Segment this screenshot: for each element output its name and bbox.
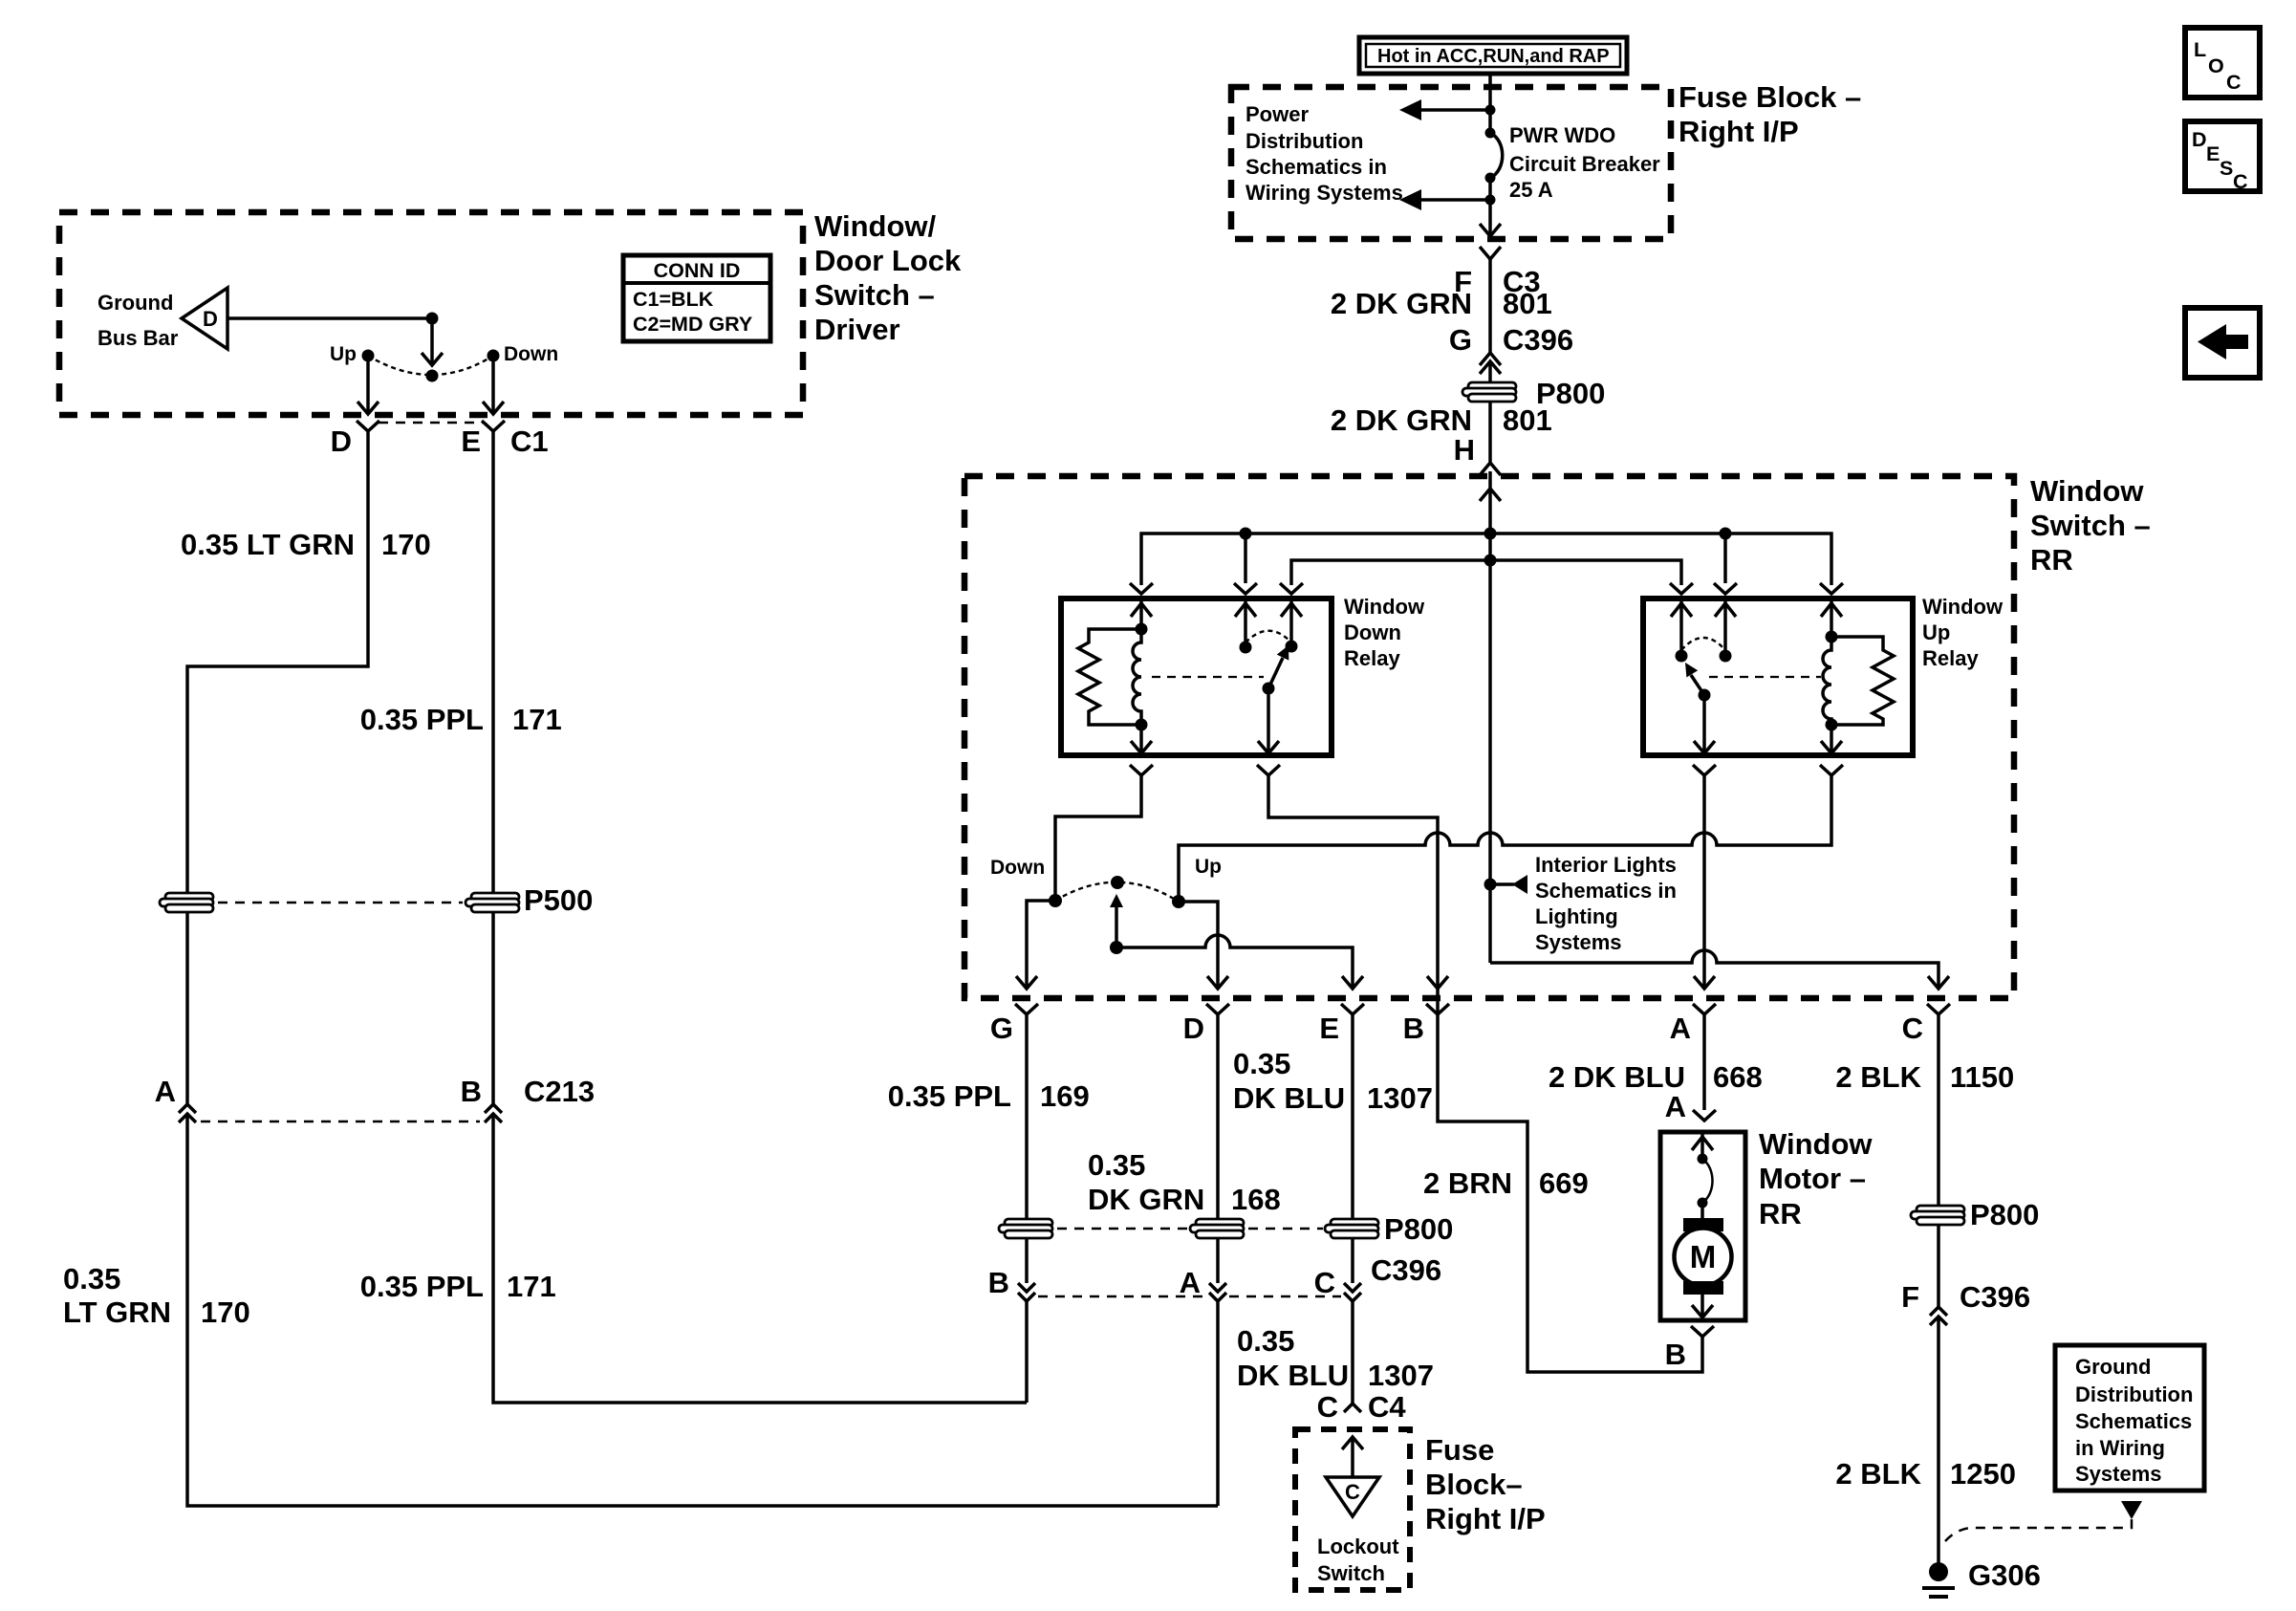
svg-text:G306: G306: [1968, 1558, 2041, 1592]
label Window Motor - RR: [1759, 1127, 1873, 1230]
svg-text:Ground: Ground: [97, 291, 173, 315]
svg-text:Up: Up: [1195, 856, 1222, 878]
svg-text:1307: 1307: [1368, 1359, 1434, 1392]
svg-text:C396: C396: [1371, 1253, 1441, 1287]
chevron motor pin B: [1691, 1326, 1714, 1337]
svg-text:Down: Down: [1344, 620, 1401, 644]
svg-text:G: G: [1449, 323, 1472, 357]
svg-text:0.35: 0.35: [1088, 1148, 1145, 1182]
wire label 0.35 PPL 169: [888, 1079, 1090, 1113]
wire label 2 DK GRN 801 (lower): [1331, 403, 1552, 437]
svg-text:2 DK GRN: 2 DK GRN: [1331, 287, 1472, 320]
svg-text:O: O: [2208, 54, 2224, 77]
svg-text:Switch –: Switch –: [2030, 509, 2151, 542]
motor M circle: [1675, 1229, 1732, 1286]
svg-text:Down: Down: [990, 857, 1045, 879]
center wire bottom run to pin C (hops A wire): [1490, 950, 1939, 989]
wire 170 to C213: [185, 911, 189, 1105]
svg-text:L: L: [2194, 38, 2206, 61]
grommet P800 on wire 1307: [1325, 1219, 1378, 1238]
down relay coil L: [1133, 629, 1141, 725]
dashed reference line to G306: [1945, 1519, 2132, 1541]
wire 2 BRN 669 pin B to motor B: [1438, 989, 1702, 1372]
svg-text:D: D: [203, 307, 218, 331]
svg-text:A: A: [155, 1075, 176, 1108]
up relay blade pivot: [1699, 689, 1711, 702]
svg-text:Relay: Relay: [1344, 646, 1400, 670]
chevron pin E driver: [482, 421, 505, 431]
svg-text:S: S: [2220, 157, 2233, 180]
svg-text:Schematics in: Schematics in: [1245, 155, 1387, 179]
svg-text:2 DK BLU: 2 DK BLU: [1549, 1060, 1685, 1094]
wire up relay switch out to pin A: [1702, 775, 1706, 989]
up relay NC contact dot: [1676, 650, 1688, 663]
motor thermal link curve: [1698, 1154, 1713, 1219]
down relay blade pivot: [1263, 683, 1275, 695]
svg-text:Circuit Breaker: Circuit Breaker: [1509, 152, 1660, 176]
chevrons above Window Up Relay: [1670, 583, 1843, 594]
svg-text:Block–: Block–: [1425, 1468, 1523, 1501]
power bus line 2: [1291, 560, 1681, 585]
connector C396 arrows pin A: [1209, 1283, 1226, 1301]
svg-text:P500: P500: [524, 883, 593, 917]
wire breaker output with arrow: [1480, 178, 1501, 236]
chevrons above Window Down Relay: [1130, 583, 1303, 594]
svg-text:A: A: [1180, 1266, 1201, 1299]
svg-text:Lockout: Lockout: [1317, 1535, 1399, 1558]
wire pin C down to P800: [1937, 1014, 1940, 1207]
label Power Distribution Schematics in Wiring Systems: [1245, 102, 1403, 205]
chevron pin D driver: [357, 421, 379, 431]
label Fuse Block- Right I/P (lockout): [1425, 1433, 1546, 1535]
chevron below down relay coil: [1130, 765, 1153, 775]
up relay coil bottom node: [1826, 719, 1838, 731]
grommet P800 right column: [1911, 1198, 2039, 1231]
svg-text:Switch –: Switch –: [814, 278, 935, 312]
svg-text:0.35 PPL: 0.35 PPL: [360, 1270, 484, 1303]
wire label 2 BLK 1250: [1835, 1457, 2016, 1491]
up relay switch contact wire with arrow: [1715, 599, 1736, 656]
wire Up contact to pin D with arrow: [357, 356, 379, 414]
up relay coil output arrow: [1821, 725, 1842, 753]
wire pin D down to P800: [1216, 1014, 1220, 1220]
svg-text:0.35: 0.35: [1233, 1047, 1290, 1080]
Window Up Relay box: [1643, 599, 1913, 755]
arrow pin G at box edge: [1016, 976, 1037, 989]
svg-text:Window: Window: [1922, 595, 2004, 619]
svg-text:Schematics in: Schematics in: [1535, 879, 1677, 903]
node bus1-relay contact: [1240, 528, 1252, 540]
lockout switch arrow up: [1342, 1437, 1363, 1477]
svg-text:669: 669: [1539, 1166, 1589, 1200]
up relay dashed arc: [1681, 638, 1725, 650]
ground bus bar triangle D: [182, 288, 227, 349]
svg-text:1250: 1250: [1950, 1457, 2016, 1491]
svg-text:C4: C4: [1368, 1390, 1406, 1424]
svg-text:0.35: 0.35: [63, 1262, 120, 1295]
down relay coupling dashed line: [1152, 676, 1264, 678]
svg-text:D: D: [1183, 1012, 1204, 1045]
interior lights tap node: [1484, 879, 1497, 891]
connector C1 dashed link: [379, 422, 483, 425]
wire label 0.35 PPL 171: [360, 703, 562, 736]
Ground Distribution Schematics in Wiring Systems box: [2055, 1345, 2204, 1491]
down relay coil top node: [1136, 623, 1148, 636]
svg-text:668: 668: [1713, 1060, 1763, 1094]
master switch Down contact: [1049, 894, 1062, 907]
wire label 0.35 DK BLU 1307 (upper): [1233, 1047, 1433, 1115]
left-arrow navigation box: [2185, 308, 2260, 378]
chevron pin B: [1426, 1004, 1449, 1014]
svg-text:C1: C1: [510, 425, 549, 458]
svg-text:P800: P800: [1384, 1212, 1453, 1246]
circuit breaker PWR WDO 25 A: [1485, 105, 1661, 206]
wire label 0.35 LT GRN 170: [181, 528, 431, 561]
lockout switch triangle C: [1326, 1477, 1379, 1516]
wire down relay switch out to pin B: [1268, 775, 1438, 989]
svg-text:171: 171: [512, 703, 562, 736]
pin G / C396 labels: [1449, 323, 1573, 357]
down relay resistor R: [1078, 629, 1141, 725]
svg-text:RR: RR: [1759, 1197, 1802, 1230]
wire label 2 BRN 669: [1423, 1166, 1589, 1200]
up relay switch output arrow: [1694, 695, 1715, 753]
arrow pin B at box edge: [1427, 976, 1448, 989]
wire label 0.35 PPL 171 (lower): [360, 1270, 556, 1303]
down relay blade with arrowhead: [1268, 645, 1289, 688]
wire pin A to motor: [1702, 1014, 1706, 1110]
label Ground Bus Bar: [97, 291, 179, 350]
svg-text:Window: Window: [2030, 474, 2144, 508]
arrow down to switch common: [422, 318, 443, 365]
svg-text:A: A: [1665, 1090, 1686, 1123]
CONN ID table: [623, 255, 770, 341]
down relay coil bottom node: [1136, 719, 1148, 731]
motor brush block top: [1683, 1218, 1723, 1231]
down relay coil input wire with arrow: [1131, 599, 1152, 629]
svg-text:170: 170: [381, 528, 431, 561]
svg-text:Window: Window: [1344, 595, 1425, 619]
svg-text:Window: Window: [1759, 1127, 1873, 1161]
connector C396 double chevron: [1480, 353, 1501, 374]
svg-text:C: C: [1902, 1012, 1923, 1045]
svg-text:P800: P800: [1970, 1198, 2039, 1231]
svg-text:Right I/P: Right I/P: [1679, 115, 1799, 148]
Window Motor - RR box: [1660, 1132, 1745, 1320]
svg-text:Window/: Window/: [814, 209, 937, 243]
Window Switch - RR dashed box: [964, 476, 2014, 998]
svg-text:Fuse Block –: Fuse Block –: [1679, 80, 1861, 114]
connector C396 chevrons right column: [1930, 1307, 1947, 1325]
svg-text:1307: 1307: [1367, 1081, 1433, 1115]
svg-text:in Wiring: in Wiring: [2075, 1436, 2165, 1460]
svg-text:C: C: [1345, 1480, 1360, 1504]
svg-text:Right I/P: Right I/P: [1425, 1502, 1546, 1535]
Lockout Switch dashed box: [1295, 1429, 1410, 1590]
grommet P500 right: [466, 893, 519, 912]
svg-text:C: C: [2226, 71, 2242, 94]
svg-text:25 A: 25 A: [1509, 178, 1553, 202]
arrow to power distribution (upper): [1399, 99, 1490, 120]
Window Down Relay box: [1061, 599, 1332, 755]
arrow pin E at box edge: [1342, 976, 1363, 989]
wire Down contact to pin E with arrow: [483, 356, 504, 414]
wire H into switch box with arrow: [1480, 471, 1501, 533]
chevron below up relay coil: [1820, 765, 1843, 775]
svg-text:C: C: [1314, 1266, 1335, 1299]
down relay switch contact wire with arrow: [1235, 599, 1256, 647]
label Window Down Relay: [1344, 595, 1425, 670]
wire up relay coil out to master Up contact (hops B, center, A): [1179, 775, 1831, 902]
svg-text:Door Lock: Door Lock: [814, 244, 962, 277]
chevron pin E: [1341, 1004, 1364, 1014]
master switch Up contact: [1172, 895, 1185, 908]
connector C213 dashed link: [201, 1121, 480, 1123]
svg-text:E: E: [461, 425, 481, 458]
svg-text:2 BRN: 2 BRN: [1423, 1166, 1512, 1200]
pin F / C3 labels: [1454, 265, 1541, 298]
wire 171 below C213: [493, 1114, 1027, 1403]
up relay coil L: [1823, 637, 1831, 725]
wire bus1 to up relay coil stub: [1723, 533, 1727, 583]
svg-text:0.35 PPL: 0.35 PPL: [888, 1079, 1011, 1113]
wire Down contact to pin G: [1027, 901, 1055, 989]
driver switch Down contact: [487, 350, 500, 362]
svg-text:G: G: [990, 1012, 1013, 1045]
grommet P800: [1462, 377, 1605, 410]
wire label 2 BLK 1150: [1835, 1060, 2014, 1094]
svg-text:Distribution: Distribution: [2075, 1382, 2193, 1406]
wire feed into fuse block: [1488, 74, 1492, 133]
svg-text:Wiring Systems: Wiring Systems: [1245, 181, 1403, 205]
svg-text:Bus Bar: Bus Bar: [97, 326, 179, 350]
svg-text:B: B: [988, 1266, 1009, 1299]
connector C213 chevrons pin A: [179, 1104, 196, 1122]
wire label 0.35 DK GRN 168: [1088, 1148, 1281, 1216]
svg-text:Lighting: Lighting: [1535, 904, 1618, 928]
wire 169 to C396: [1025, 1237, 1029, 1283]
node bus1-up relay contact: [1720, 528, 1732, 540]
wire 2 BLK 1250 down to G306: [1937, 1317, 1940, 1568]
master switch apex dot: [1111, 876, 1124, 889]
wire label 2 DK GRN 801 (upper): [1331, 259, 1552, 353]
wire C396-B to driver 171 run: [1025, 1301, 1029, 1403]
connector C396 arrows pin B: [1018, 1283, 1035, 1301]
svg-text:171: 171: [507, 1270, 556, 1303]
svg-text:B: B: [461, 1075, 482, 1108]
svg-text:801: 801: [1503, 403, 1552, 437]
node bus2-center: [1484, 555, 1497, 567]
svg-text:C213: C213: [524, 1075, 595, 1108]
connector C4 chevron: [1344, 1404, 1361, 1412]
down relay NC contact wire: [1281, 599, 1302, 646]
wire label 0.35 DK BLU 1307 (lower): [1237, 1324, 1434, 1392]
motor input wire with arrow: [1692, 1132, 1713, 1159]
center wire down through box: [1488, 533, 1492, 963]
svg-text:801: 801: [1503, 287, 1552, 320]
svg-text:E: E: [2206, 142, 2220, 165]
grommet P800 on wire 168: [1190, 1219, 1244, 1238]
svg-text:Systems: Systems: [1535, 930, 1622, 954]
svg-text:0.35 LT GRN: 0.35 LT GRN: [181, 528, 355, 561]
label Fuse Block - Right I/P: [1679, 80, 1861, 148]
label Interior Lights Schematics in Lighting Systems: [1535, 853, 1677, 954]
svg-text:1150: 1150: [1950, 1060, 2014, 1094]
svg-text:C1=BLK: C1=BLK: [633, 288, 714, 311]
interior lights arrow: [1490, 875, 1527, 894]
driver switch dashed arc: [368, 356, 493, 375]
wire bus1 to down relay contact stub: [1244, 533, 1247, 583]
svg-text:D: D: [2192, 128, 2207, 151]
label Lockout Switch: [1317, 1535, 1399, 1585]
down relay coil output arrow: [1131, 725, 1152, 753]
label Window/Door Lock Switch - Driver: [814, 209, 962, 346]
svg-text:Systems: Systems: [2075, 1462, 2162, 1486]
up relay coupling dashed line: [1709, 676, 1821, 678]
wire label 2 DK BLU 668: [1549, 1060, 1763, 1094]
svg-text:170: 170: [201, 1295, 250, 1329]
svg-text:DK GRN: DK GRN: [1088, 1183, 1204, 1216]
wire C396-A down to bottom run: [1216, 1301, 1220, 1506]
svg-text:Power: Power: [1245, 102, 1309, 126]
wire from triangle to switch common: [227, 316, 432, 320]
svg-text:Hot in ACC,RUN,and RAP: Hot in ACC,RUN,and RAP: [1377, 46, 1610, 67]
up relay switch contact dot: [1720, 650, 1732, 663]
svg-text:0.35 PPL: 0.35 PPL: [360, 703, 484, 736]
svg-text:F: F: [1901, 1280, 1919, 1314]
down relay switch contact dot: [1240, 642, 1252, 654]
chevron pin D: [1206, 1004, 1229, 1014]
driver switch Up contact: [362, 350, 375, 362]
connector C396 arrows pin C: [1344, 1283, 1361, 1301]
label Window Switch - RR: [2030, 474, 2151, 577]
Window/Door Lock Switch - Driver dashed box: [59, 212, 803, 415]
svg-text:Interior Lights: Interior Lights: [1535, 853, 1677, 877]
svg-text:C396: C396: [1503, 323, 1573, 357]
svg-text:B: B: [1665, 1338, 1686, 1371]
junction dot above driver switch: [426, 313, 439, 325]
chevron pin H: [1480, 463, 1501, 475]
wire pin E down to P800: [1351, 1014, 1354, 1220]
ground G306 symbol: [1922, 1562, 1955, 1597]
wire label 0.35 LT GRN 170 (lower): [63, 1262, 250, 1329]
grommet P500 left: [160, 893, 213, 912]
up relay resistor R: [1831, 637, 1894, 725]
wire 171 to C213: [491, 911, 495, 1105]
P500 dashed link: [218, 902, 463, 904]
svg-text:LT GRN: LT GRN: [63, 1295, 171, 1329]
chevron pin G: [1015, 1004, 1038, 1014]
svg-text:DK BLU: DK BLU: [1237, 1359, 1349, 1392]
svg-text:C2=MD GRY: C2=MD GRY: [633, 313, 752, 336]
svg-text:2 DK GRN: 2 DK GRN: [1331, 403, 1472, 437]
wire 171 from driver pin E: [491, 431, 495, 894]
svg-text:Switch: Switch: [1317, 1561, 1385, 1585]
wire 168 to C396: [1216, 1237, 1220, 1283]
wire to P800: [1488, 361, 1492, 463]
svg-text:B: B: [1403, 1012, 1424, 1045]
connector C213 chevrons pin B: [485, 1104, 502, 1122]
wire 170 from driver pin D: [187, 431, 368, 894]
LOC reference box: [2185, 28, 2260, 98]
motor output wire with arrow: [1692, 1295, 1713, 1317]
svg-text:H: H: [1454, 433, 1475, 467]
svg-text:169: 169: [1040, 1079, 1090, 1113]
arrow pin C at box edge: [1928, 976, 1949, 989]
wire 170 below C213: [187, 1114, 1218, 1506]
svg-text:0.35: 0.35: [1237, 1324, 1294, 1358]
down relay dashed arc: [1245, 631, 1290, 642]
svg-text:Ground: Ground: [2075, 1355, 2151, 1379]
svg-text:Up: Up: [330, 343, 357, 365]
svg-text:M: M: [1690, 1239, 1717, 1274]
svg-text:C: C: [2233, 170, 2248, 193]
arrow pin D at box edge: [1207, 976, 1228, 989]
wire to C396 pin F: [1937, 1224, 1940, 1307]
wire 1307 to C396: [1351, 1237, 1354, 1283]
grommet P800 on wire 169: [999, 1219, 1052, 1238]
motor brush block bottom: [1683, 1281, 1723, 1295]
connector C396 dashed links: [1038, 1295, 1341, 1298]
chevron below up relay switch: [1693, 765, 1716, 775]
chevron below down relay switch: [1257, 765, 1280, 775]
wire pin G down to P800: [1025, 1014, 1029, 1220]
master switch dashed arc: [1055, 882, 1179, 902]
chevron below fuse block: [1480, 247, 1501, 259]
down relay NC contact dot: [1286, 641, 1298, 653]
up relay coil input wire with arrow: [1821, 599, 1842, 637]
svg-text:2 BLK: 2 BLK: [1835, 1060, 1921, 1094]
svg-text:C396: C396: [1960, 1280, 2030, 1314]
wire master common to pin E (hops D wire): [1116, 935, 1353, 989]
down relay switch output arrow: [1258, 688, 1279, 753]
node bus1-center: [1484, 528, 1497, 540]
svg-text:A: A: [1670, 1012, 1691, 1045]
label Window Up Relay: [1922, 595, 2004, 670]
svg-text:Relay: Relay: [1922, 646, 1979, 670]
Hot in ACC,RUN,and RAP header box: [1359, 37, 1627, 74]
svg-text:168: 168: [1231, 1183, 1281, 1216]
wire down relay coil out to master Down contact: [1055, 775, 1141, 901]
chevron pin C: [1927, 1004, 1950, 1014]
up relay NC contact wire: [1671, 599, 1692, 656]
svg-text:Motor –: Motor –: [1759, 1162, 1866, 1195]
svg-text:Up: Up: [1922, 620, 1950, 644]
svg-text:Fuse: Fuse: [1425, 1433, 1494, 1467]
svg-text:Distribution: Distribution: [1245, 129, 1363, 153]
svg-text:Driver: Driver: [814, 313, 900, 346]
svg-text:Schematics: Schematics: [2075, 1409, 2192, 1433]
svg-text:C: C: [1317, 1390, 1338, 1424]
up relay coil top node: [1826, 631, 1838, 643]
svg-text:RR: RR: [2030, 543, 2073, 577]
svg-text:Down: Down: [504, 343, 558, 365]
chevron pin A: [1693, 1004, 1716, 1014]
driver switch common contact: [426, 370, 439, 382]
chevron motor pin A: [1693, 1110, 1716, 1121]
svg-text:CONN ID: CONN ID: [654, 259, 741, 282]
DESC reference box: [2185, 121, 2260, 193]
Fuse Block - Right I/P dashed box: [1231, 87, 1671, 239]
svg-text:2 BLK: 2 BLK: [1835, 1457, 1921, 1491]
arrow to power distribution (lower): [1399, 189, 1490, 210]
arrow pin A at box edge: [1694, 976, 1715, 989]
svg-text:PWR WDO: PWR WDO: [1509, 123, 1615, 147]
wire C396-C down to C4: [1351, 1301, 1354, 1404]
svg-text:D: D: [331, 425, 352, 458]
master switch common arrow up: [1110, 894, 1123, 947]
master switch common node: [1110, 941, 1123, 954]
